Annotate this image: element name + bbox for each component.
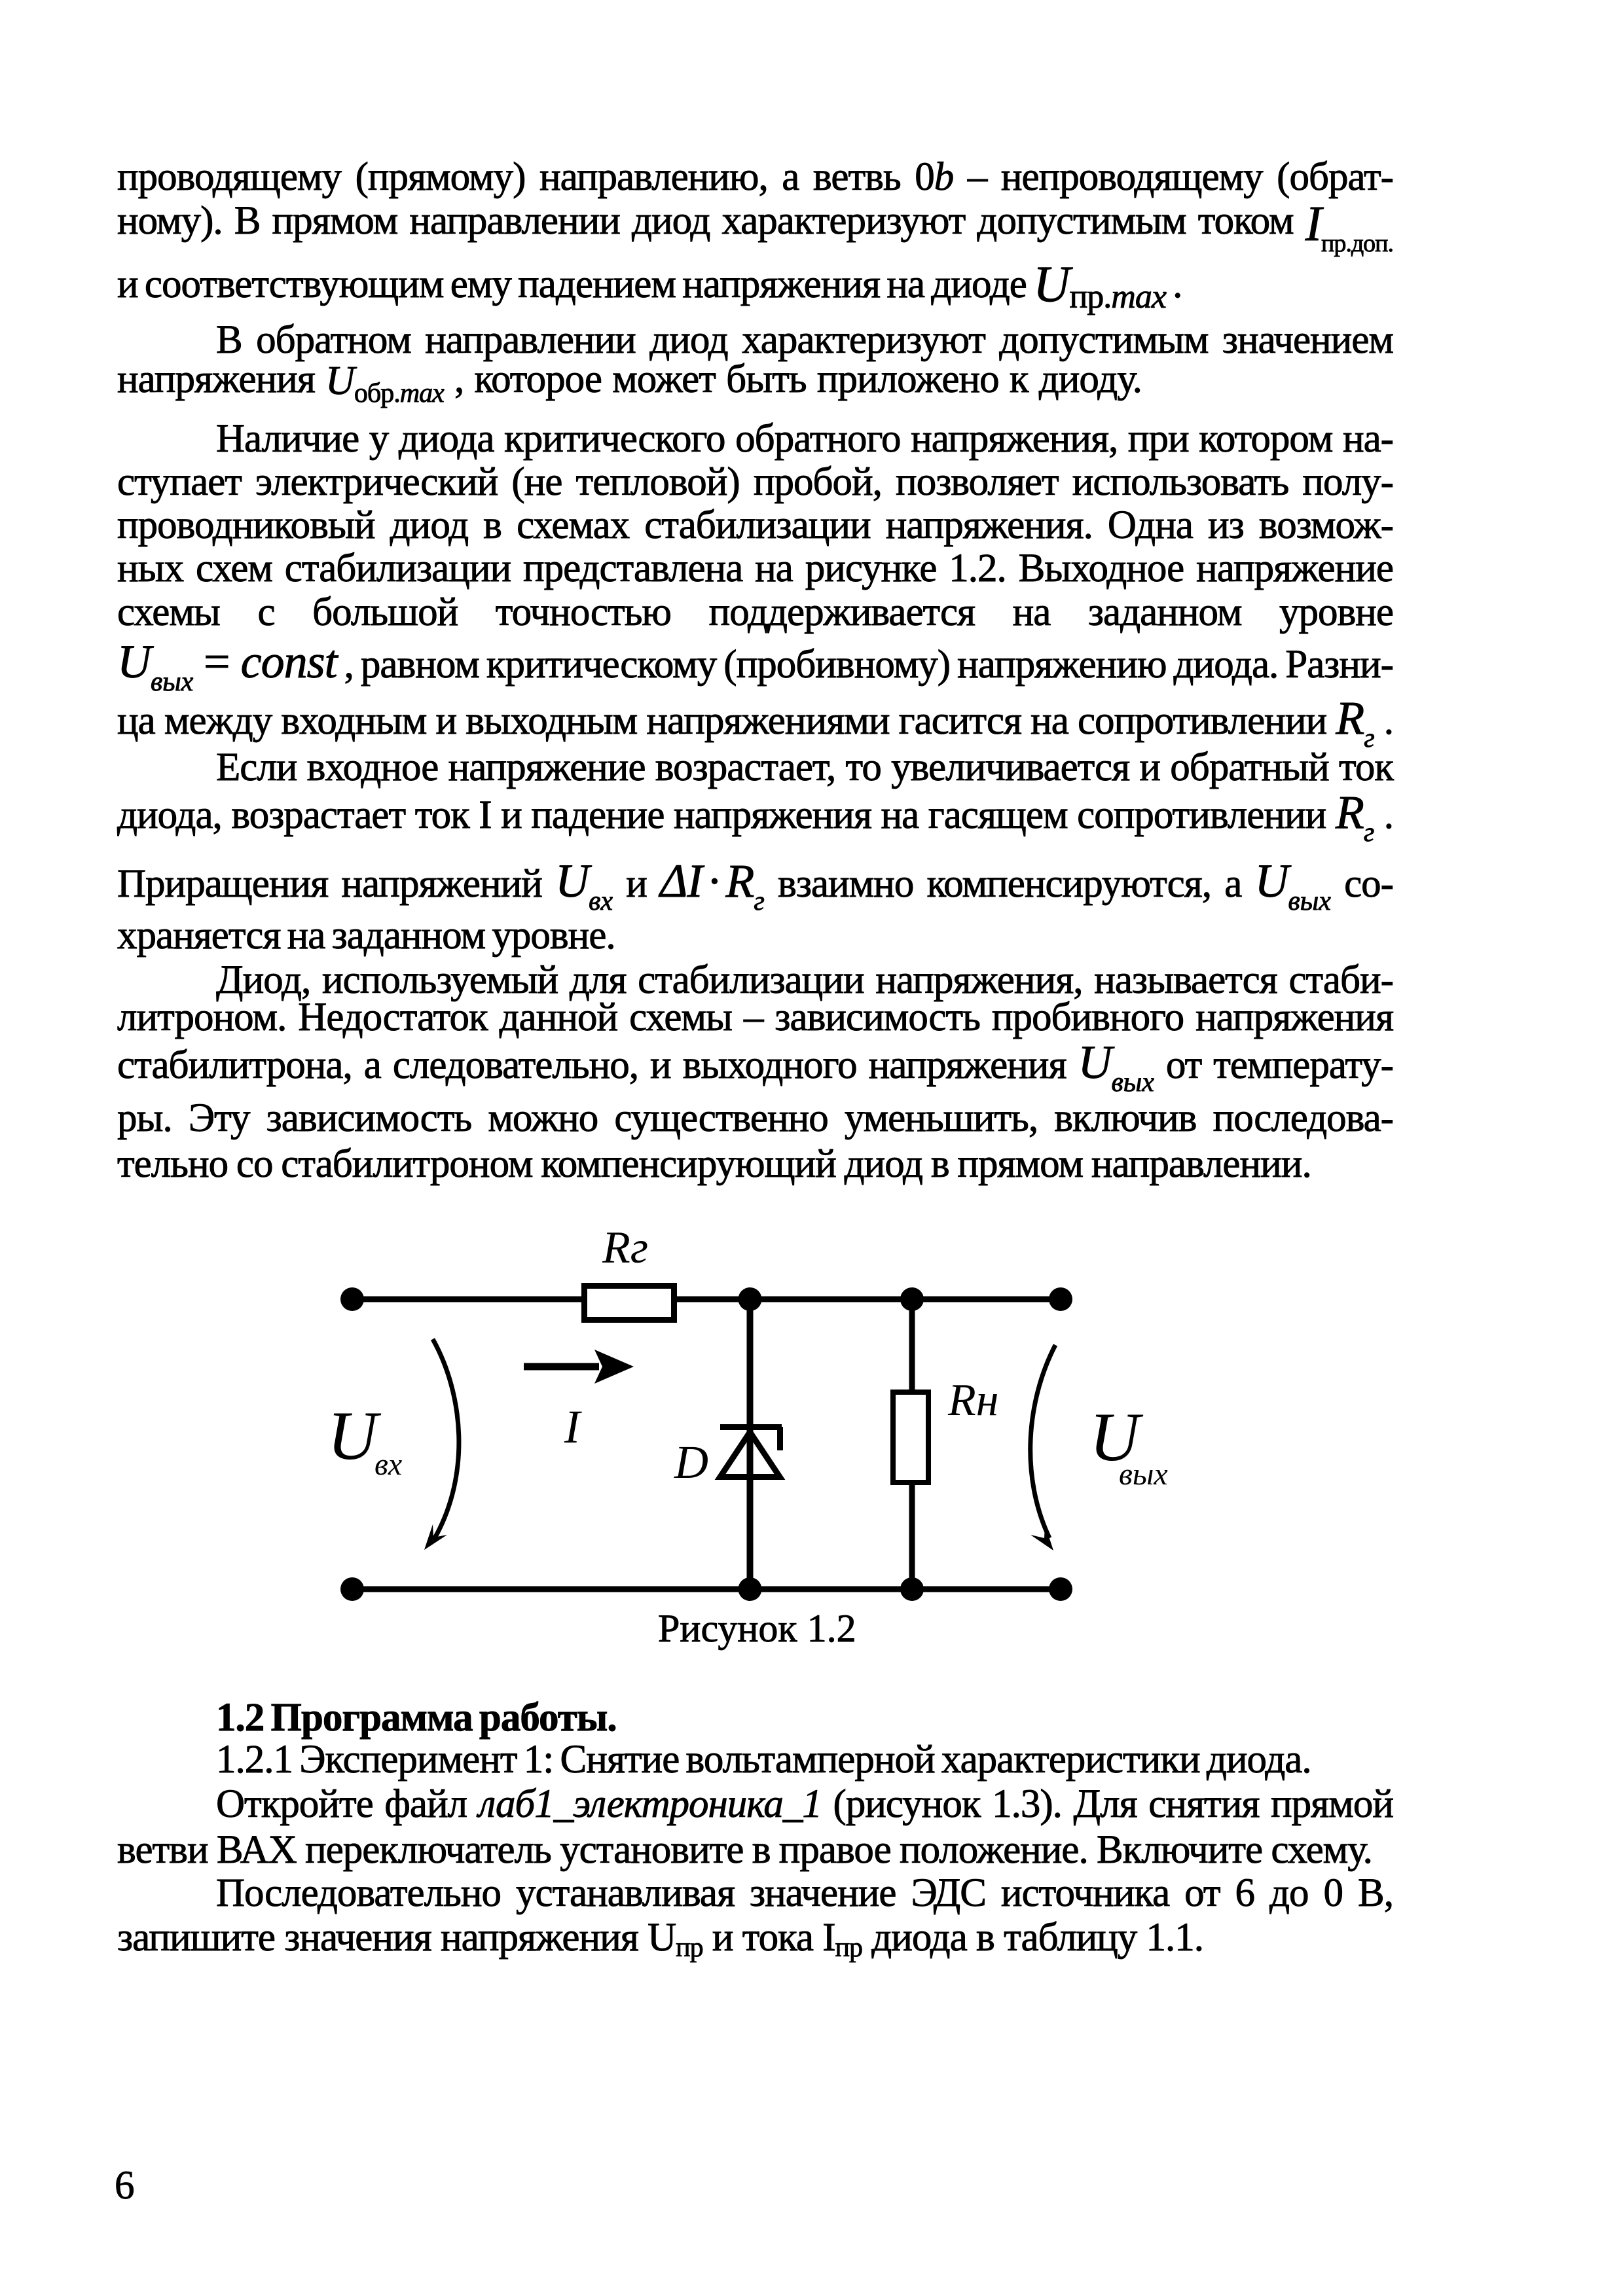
svg-text:I: I — [564, 1401, 582, 1453]
svg-text:вых: вых — [1119, 1457, 1168, 1492]
svg-text:Rг: Rг — [602, 1230, 648, 1273]
svg-text:вх: вх — [374, 1447, 402, 1482]
svg-text:D: D — [674, 1436, 708, 1488]
svg-text:Rн: Rн — [947, 1375, 999, 1426]
svg-text:U: U — [327, 1397, 382, 1474]
